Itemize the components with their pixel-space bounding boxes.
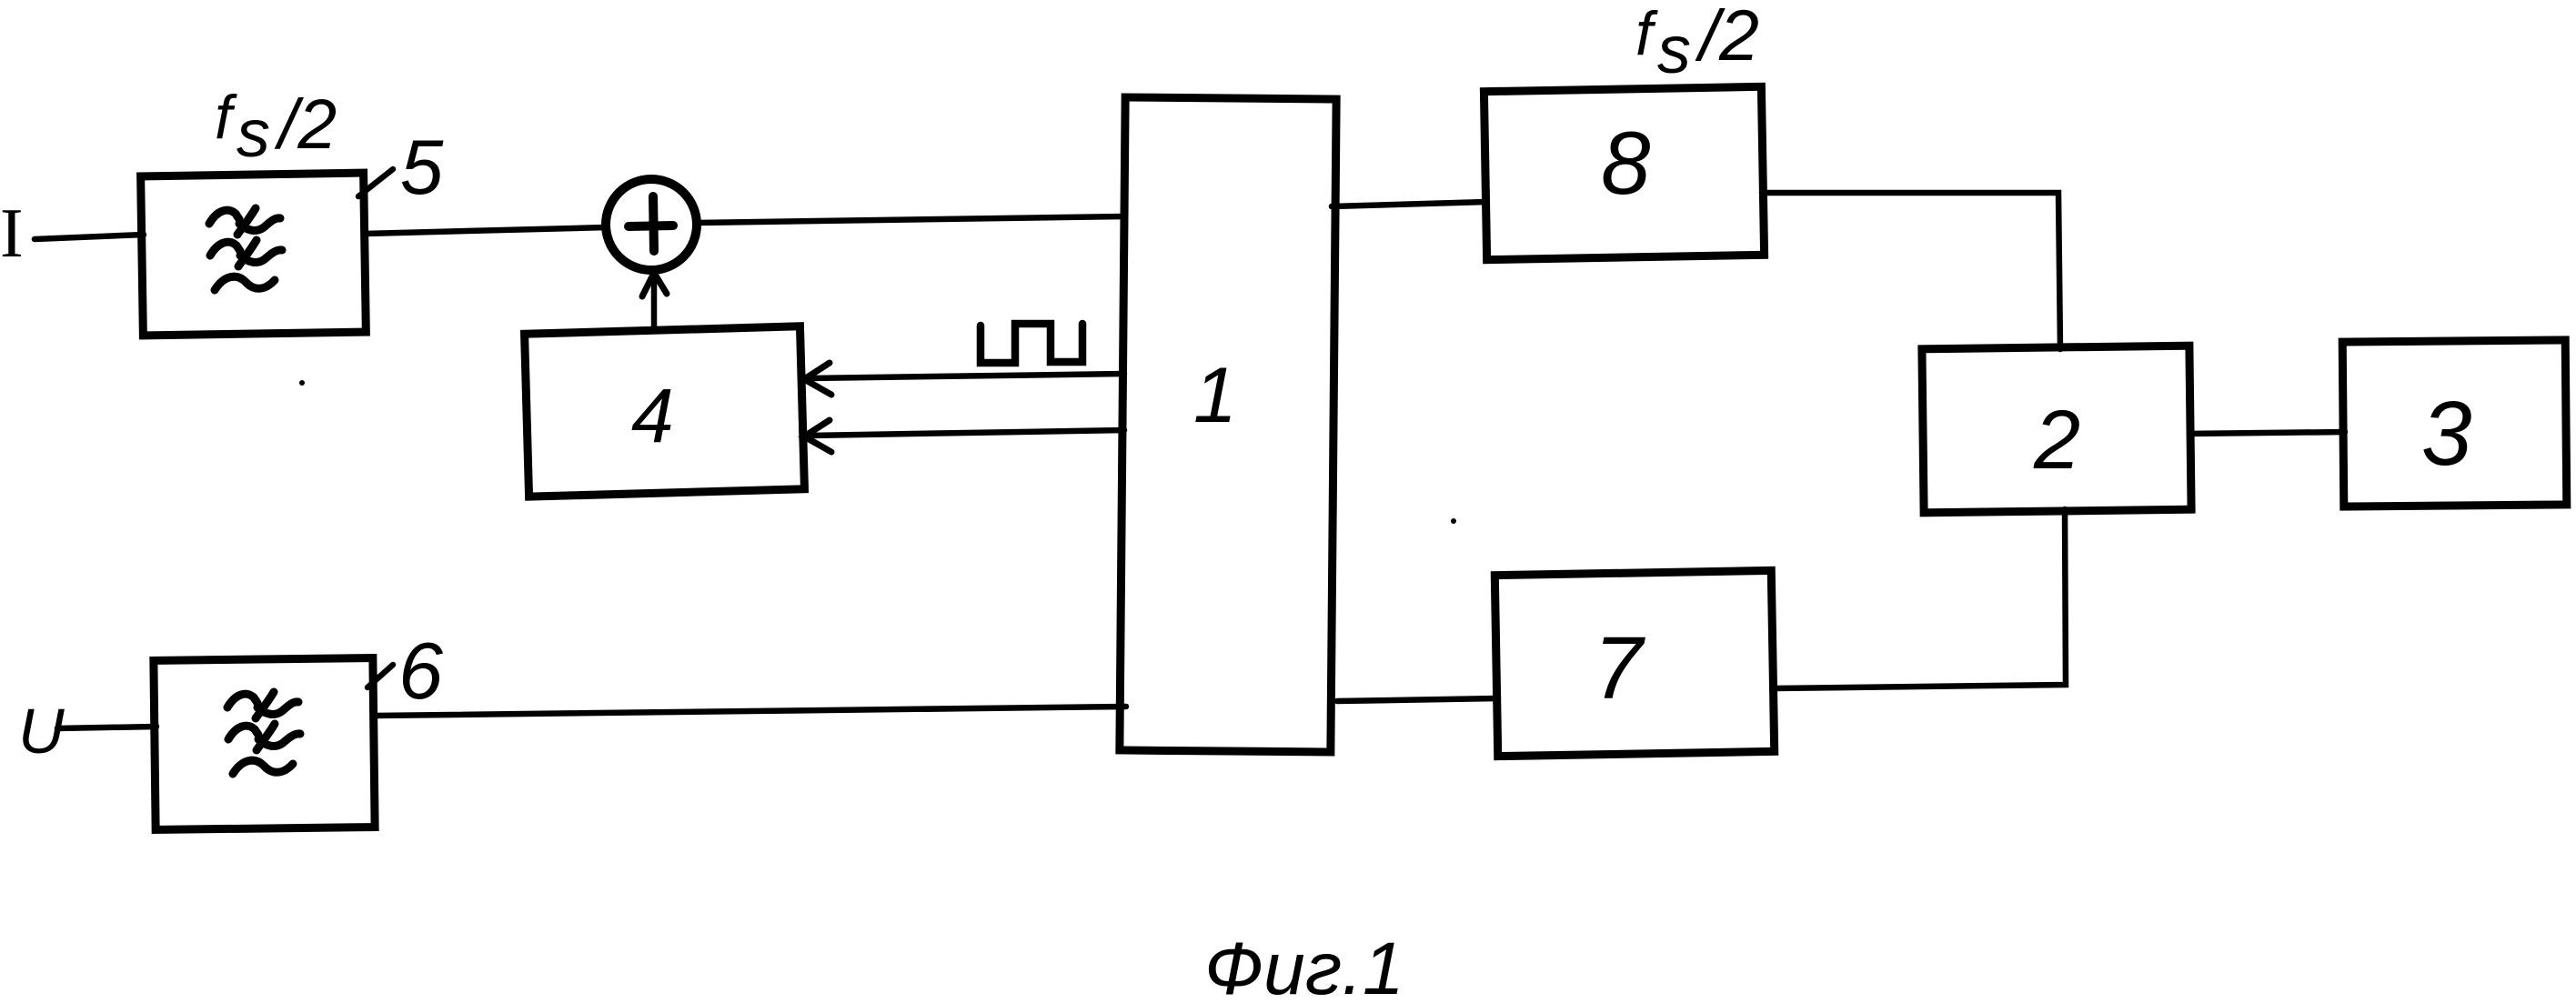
wire summing junction to block 1 <box>697 216 1124 223</box>
svg-text:8: 8 <box>1601 113 1651 213</box>
wire block 2 to block 3 <box>2189 432 2345 434</box>
filter block 5 <box>141 173 367 336</box>
svg-text:s: s <box>236 95 270 171</box>
block 2 <box>1922 346 2191 513</box>
label fs/2 above block 8 <box>1635 0 1759 87</box>
filter 5 wave symbol <box>209 208 282 290</box>
svg-text:1: 1 <box>1193 352 1237 439</box>
svg-text:/2: /2 <box>274 85 337 164</box>
block 8 <box>1484 86 1764 259</box>
wire filter 5 to summing junction <box>365 227 607 234</box>
arrow block 1 to block 4 upper <box>806 374 1124 378</box>
wire block 2 to block 7 <box>1775 509 2066 688</box>
block 7 <box>1494 570 1774 756</box>
speck dot 1 <box>299 380 305 386</box>
svg-text:Фиг.1: Фиг.1 <box>1204 928 1404 1003</box>
arrow block 1 to block 4 lower <box>806 430 1124 436</box>
label fs/2 above filter 5 <box>215 83 337 171</box>
svg-text:/2: /2 <box>1695 0 1759 75</box>
wire I to filter 5 <box>35 235 144 239</box>
pulse waveform symbol <box>981 324 1082 363</box>
reference tick for label 6 <box>367 665 393 687</box>
filter block 6 <box>154 658 375 830</box>
svg-text:3: 3 <box>2421 383 2472 485</box>
svg-text:6: 6 <box>398 626 443 716</box>
summing junction <box>606 179 697 270</box>
svg-text:f: f <box>1635 0 1658 68</box>
svg-text:7: 7 <box>1594 618 1645 717</box>
wire filter 6 to block 1 <box>375 707 1126 716</box>
arrow adder from block 4 <box>651 275 658 331</box>
reference tick for label 5 <box>358 169 393 196</box>
filter 6 wave symbol <box>227 692 300 774</box>
wire block 8 to block 2 <box>1762 193 2060 349</box>
svg-text:f: f <box>215 83 237 152</box>
block 3 <box>2342 340 2567 507</box>
svg-text:5: 5 <box>400 125 444 211</box>
adjuster block 4 <box>525 326 805 496</box>
wire block 1 to block 7 <box>1337 698 1498 701</box>
svg-text:s: s <box>1657 12 1691 87</box>
svg-text:2: 2 <box>2033 394 2080 486</box>
speck dot 2 <box>1451 518 1456 524</box>
svg-text:I: I <box>0 194 24 272</box>
processor block 1 <box>1120 97 1336 752</box>
wire block 1 to block 8 <box>1332 202 1486 206</box>
wire U to filter 6 <box>57 727 156 728</box>
svg-text:4: 4 <box>631 373 674 458</box>
